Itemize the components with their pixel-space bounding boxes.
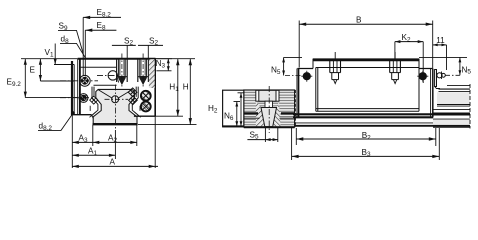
rail side view right of block — [433, 84, 470, 129]
block bottom right edge — [134, 115, 156, 117]
dim H — [138, 59, 197, 125]
S2 hole right center line — [142, 54, 144, 87]
dim N5 right — [459, 57, 472, 75]
body top — [313, 58, 419, 61]
housing center dash-dot — [268, 86, 270, 133]
clamp plate left edge (double) — [71, 59, 93, 119]
cap bottoms / lower thick line — [293, 113, 433, 115]
end cap screw dot left — [285, 71, 312, 82]
hatched band right of S2 holes — [149, 59, 155, 88]
label d8 with leader — [60, 35, 86, 58]
S2 hole left center line — [121, 54, 123, 87]
dim K2 — [395, 33, 423, 83]
A-series extension lines — [72, 114, 155, 168]
nipple axis dash-dot — [446, 74, 460, 76]
side pocket with arc — [80, 67, 119, 85]
dim 11 — [433, 36, 447, 70]
svg-text:A: A — [110, 157, 116, 166]
white ref box left of housing — [223, 90, 244, 127]
rail bottom thick line — [93, 123, 138, 125]
screw circles in block right (section) — [141, 91, 151, 112]
top surface extension line left — [21, 58, 78, 60]
grease nipple plate right — [435, 70, 446, 89]
dim V1 — [45, 44, 57, 65]
S2 hole left tip hatch — [118, 76, 125, 85]
block outline around rail — [90, 87, 141, 118]
clamp plate top edge at V1 level — [54, 64, 74, 66]
rail cross-section body — [93, 89, 137, 123]
pocket axis dash-dot — [97, 74, 120, 76]
cap-body joints — [316, 68, 419, 112]
bolt d8 lower (section) — [79, 94, 88, 103]
svg-text:11: 11 — [436, 36, 445, 45]
dim B2 — [296, 128, 436, 146]
bolt axis dash-dot lower — [60, 97, 93, 99]
dim E — [30, 59, 75, 81]
cap outer edges — [298, 69, 300, 118]
body top steps — [313, 59, 419, 69]
label S9 with leader — [58, 22, 83, 54]
dim E8.2 — [83, 8, 121, 76]
end cap tops — [298, 68, 433, 70]
bolt S9 upper (section) — [79, 75, 90, 86]
dim E8 — [85, 21, 116, 77]
svg-text:E: E — [30, 66, 36, 75]
screw cone gray — [261, 108, 277, 127]
S2 hole right (counterbore section) — [138, 59, 149, 84]
end cap screw dot right — [417, 71, 428, 82]
mounting screw left (side view) — [330, 52, 341, 84]
block top surface — [78, 58, 156, 60]
label d8.2 with leader — [38, 114, 73, 132]
dim B3 — [292, 128, 440, 160]
top surface extension right — [419, 56, 467, 58]
rail center line dash-dot — [114, 85, 116, 131]
S2 hole left (counterbore section) — [117, 59, 128, 84]
housing outline — [244, 90, 295, 127]
screw head gray — [259, 90, 276, 101]
dim B — [299, 15, 433, 68]
labels S2 with leaders — [112, 36, 163, 58]
ball sections with X marks — [90, 88, 138, 105]
block body side view — [293, 59, 433, 118]
hatched wedges — [256, 101, 265, 126]
dim N3 — [156, 59, 173, 71]
dim H1 — [156, 59, 196, 116]
dim A — [72, 157, 158, 168]
dim E9.2 — [7, 59, 79, 98]
white slot — [265, 101, 273, 107]
dim N6 — [224, 102, 240, 127]
body bottom — [316, 110, 419, 112]
clamp housing side (S5 unit) body — [244, 90, 295, 127]
bolt axis dash-dot upper — [60, 80, 98, 82]
svg-text:B: B — [356, 15, 362, 24]
left scraper plate of block — [295, 69, 297, 128]
dim A3/A2 line — [72, 134, 137, 144]
rail bottom lines (right view) — [244, 123, 470, 126]
S2 hole right tip hatch — [140, 76, 147, 85]
mounting screw right (side view) — [390, 52, 401, 84]
counterbore white — [256, 90, 279, 101]
block right edge — [154, 58, 156, 116]
dim N5 left — [271, 57, 302, 75]
dim S5 — [247, 128, 277, 143]
svg-text:H: H — [183, 83, 189, 92]
rail center contact circle — [98, 90, 132, 103]
dim A1 — [72, 147, 115, 157]
dim H2 — [208, 93, 245, 127]
